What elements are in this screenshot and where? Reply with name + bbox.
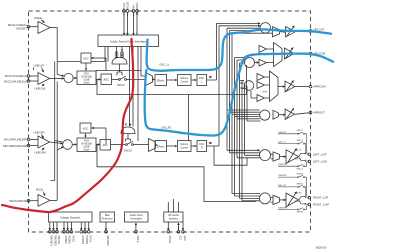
mixer C (right record mixer) bbox=[63, 140, 73, 150]
wire left bus verticals bbox=[51, 28, 58, 201]
svg-text:SW-L4: SW-L4 bbox=[295, 150, 302, 152]
amp D5 LEFT_LO driver bbox=[286, 149, 299, 164]
wire Volume R to DAC R bbox=[191, 145, 196, 147]
svg-text:Effects: Effects bbox=[157, 79, 165, 82]
svg-text:0.5dB: 0.5dB bbox=[83, 147, 89, 149]
svg-text:DVDD1: DVDD1 bbox=[81, 236, 84, 245]
wire DAC R to lineout bus bbox=[214, 146, 247, 165]
Voltage Supplies box bbox=[49, 212, 93, 222]
PGA C box bbox=[77, 138, 96, 152]
svg-text:AGC: AGC bbox=[83, 127, 89, 131]
Volume Control R box bbox=[178, 141, 192, 152]
level cells on serial lines bbox=[115, 52, 118, 57]
Volume Control L box bbox=[178, 75, 192, 86]
wire mux C down bbox=[126, 134, 131, 142]
pin LEFT_LOM bbox=[308, 160, 328, 164]
mux X4 bbox=[273, 110, 279, 119]
input pin MIC2L/LINE2L bbox=[27, 25, 38, 28]
wire A2 to mixer B bbox=[50, 78, 64, 80]
svg-text:SW-L2: SW-L2 bbox=[297, 130, 304, 132]
svg-text:LINE2LP: LINE2LP bbox=[278, 132, 287, 134]
wire AGC B down bbox=[85, 63, 87, 70]
svg-text:0/+59.5dB: 0/+59.5dB bbox=[81, 144, 92, 146]
wire HPRCOM mixer stub bbox=[242, 88, 244, 90]
svg-text:DRVDD2: DRVDD2 bbox=[53, 236, 56, 247]
svg-text:Generation: Generation bbox=[130, 217, 142, 220]
DAC L box bbox=[197, 75, 207, 86]
wire mux X2 to amp D2 bbox=[282, 53, 284, 55]
wire bypass C bbox=[97, 145, 256, 202]
svg-text:MICDET: MICDET bbox=[16, 27, 27, 31]
svg-text:Voltage Supplies: Voltage Supplies bbox=[60, 215, 81, 219]
wire bus v229 bbox=[230, 31, 261, 153]
label MICB bbox=[36, 188, 45, 196]
svg-text:MIC1LP/LINE1LP: MIC1LP/LINE1LP bbox=[5, 74, 27, 78]
svg-text:LEFT_LOP: LEFT_LOP bbox=[313, 152, 327, 156]
wire PGA B to ADC B bbox=[96, 78, 101, 80]
svg-text:AGC: AGC bbox=[83, 57, 89, 61]
svg-text:Interface: Interface bbox=[169, 217, 179, 220]
svg-text:SW-R4: SW-R4 bbox=[295, 193, 303, 195]
clock pin bbox=[135, 223, 139, 243]
svg-text:MIC1LM/LINE1LM: MIC1LM/LINE1LM bbox=[4, 79, 28, 83]
wire bus v216 bbox=[217, 23, 261, 80]
svg-text:SW-R2: SW-R2 bbox=[297, 174, 305, 176]
annotation blue path DAC-R to HPLCOM bbox=[145, 54, 333, 136]
svg-text:HPRCOM: HPRCOM bbox=[314, 85, 327, 89]
svg-text:DVSS: DVSS bbox=[89, 236, 92, 243]
wire A3 to mixer C bbox=[50, 142, 63, 144]
PGA B box bbox=[77, 71, 96, 85]
wire A4 out up bbox=[50, 199, 57, 201]
wire bypass B bbox=[97, 66, 247, 95]
label LINE1RP bbox=[34, 131, 45, 139]
wire mux X1 to amp D1 bbox=[280, 31, 286, 33]
buffer T2 bbox=[257, 74, 269, 81]
svg-text:LINE1RP: LINE1RP bbox=[34, 131, 45, 135]
Bias Reference box bbox=[100, 212, 115, 222]
label LINE1RM bbox=[35, 148, 46, 154]
svg-text:Control: Control bbox=[180, 146, 188, 149]
svg-text:B0265-05: B0265-05 bbox=[316, 247, 327, 250]
chip dashed border bbox=[29, 11, 311, 232]
svg-text:PGA: PGA bbox=[84, 73, 89, 76]
svg-text:DRVDD1: DRVDD1 bbox=[50, 236, 53, 247]
svg-text:DOUT: DOUT bbox=[135, 2, 139, 10]
amp A3 right input buffer bbox=[38, 136, 50, 148]
svg-text:SW-L5: SW-L5 bbox=[295, 158, 302, 160]
wire bus v219 bbox=[219, 26, 260, 146]
svg-text:AVDD1: AVDD1 bbox=[64, 236, 67, 245]
svg-text:R: R bbox=[201, 146, 203, 149]
svg-text:BCLK: BCLK bbox=[122, 2, 126, 9]
mux X3 tall bbox=[270, 71, 279, 102]
wire bus v244 bbox=[244, 84, 260, 156]
label LINE1LM bbox=[35, 84, 46, 90]
switch SW-D1 bbox=[117, 76, 126, 87]
amp D3 HPRCOM driver bbox=[285, 81, 295, 93]
mux X1 bbox=[270, 27, 279, 37]
svg-text:LINE1RM: LINE1RM bbox=[35, 150, 46, 154]
svg-text:Control: Control bbox=[180, 80, 188, 83]
svg-text:SW-R1: SW-R1 bbox=[297, 183, 305, 185]
wire mux E1 to Effects L bbox=[153, 78, 155, 80]
svg-text:LINE1LP: LINE1LP bbox=[34, 64, 45, 68]
svg-text:LINE2L: LINE2L bbox=[34, 16, 43, 20]
wire ASI to mux B bbox=[117, 47, 123, 52]
svg-text:0/+59.5dB: 0/+59.5dB bbox=[81, 77, 92, 79]
buffer T1b bbox=[259, 59, 273, 66]
mux X2 tall bbox=[274, 43, 282, 67]
input pins MIC1LP/LINE1LP bbox=[27, 75, 38, 78]
svg-text:Steps: Steps bbox=[84, 82, 91, 85]
mixer B (left record mixer) bbox=[64, 73, 73, 82]
wire amp D3 to pin HPRCOM bbox=[295, 86, 309, 88]
wire row B junction line bbox=[96, 70, 141, 79]
wire A1 out bbox=[50, 27, 57, 29]
wire amp D2 to pin HPLCOM bbox=[294, 53, 309, 55]
switch row LINE2RM SW-R3 bbox=[278, 205, 307, 210]
svg-text:MIC1RP/LINE1RP: MIC1RP/LINE1RP bbox=[4, 138, 27, 142]
svg-text:PGA: PGA bbox=[84, 140, 89, 143]
supply pins bbox=[48, 222, 90, 233]
switch row LINE2LM SW-L3 bbox=[278, 162, 307, 167]
svg-text:SW-L1: SW-L1 bbox=[297, 140, 304, 142]
wire bus v232 bbox=[232, 33, 272, 193]
svg-text:DVDD2: DVDD2 bbox=[85, 236, 88, 245]
svg-text:DIN: DIN bbox=[131, 5, 135, 10]
label LINE1LP bbox=[34, 64, 45, 73]
switch row DAC_L1 SW-L1 bbox=[278, 142, 306, 153]
svg-text:DAC_R1: DAC_R1 bbox=[278, 184, 287, 187]
wire mux X4 to amp D4 bbox=[279, 114, 285, 116]
Effects R box bbox=[155, 141, 167, 152]
wire switch B to mux bbox=[127, 78, 146, 80]
svg-text:SW-D2: SW-D2 bbox=[124, 150, 132, 153]
svg-text:SDA: SDA bbox=[183, 236, 186, 241]
pin WCLK bbox=[126, 10, 129, 35]
I2C Serial Interface box bbox=[164, 212, 183, 222]
AGC B box bbox=[81, 53, 91, 63]
wire mux X3 to amp D3 bbox=[278, 86, 285, 88]
wire D5 outputs bbox=[299, 153, 309, 162]
wire D6 outputs bbox=[299, 196, 309, 204]
wire bus v247 bbox=[228, 86, 261, 121]
pin RIGHT_LOP bbox=[308, 196, 328, 200]
mixer M4 HPROUT bbox=[260, 110, 270, 120]
svg-text:SW-R3: SW-R3 bbox=[297, 212, 305, 214]
wire bus v234 bbox=[235, 58, 260, 197]
svg-text:0.5dB: 0.5dB bbox=[83, 80, 89, 82]
pin HPRCOM bbox=[309, 85, 326, 89]
bias pin bbox=[105, 222, 109, 246]
mux E2 (DAC R input mux) bbox=[149, 139, 156, 152]
mux X6 bbox=[271, 195, 280, 204]
wire ADC C to switch C bbox=[111, 144, 126, 146]
svg-text:DAC_L1: DAC_L1 bbox=[160, 64, 170, 67]
svg-text:RIGHT_LOP: RIGHT_LOP bbox=[313, 196, 328, 200]
svg-text:ADC: ADC bbox=[102, 143, 108, 147]
pin HPLCOM bbox=[309, 52, 326, 56]
wire mixer B to PGA B bbox=[73, 77, 76, 79]
mixer M1 HPLOUT bbox=[260, 23, 270, 33]
pin HPROUT bbox=[309, 111, 325, 115]
amp A1 input buffer bbox=[38, 22, 50, 34]
wire M2 to mux X2 bbox=[255, 62, 259, 64]
DAC R box bbox=[197, 141, 207, 152]
wire Volume L to DAC L bbox=[191, 79, 196, 81]
wire amp D4 to pin HPROUT bbox=[295, 113, 309, 115]
annotation red path bbox=[2, 39, 133, 212]
svg-text:Audio Serial Data Interface: Audio Serial Data Interface bbox=[110, 40, 147, 44]
svg-text:DRVSS: DRVSS bbox=[57, 236, 60, 245]
wire mux E2 to Effects R bbox=[156, 144, 158, 146]
svg-text:LEFT_LOM: LEFT_LOM bbox=[313, 160, 328, 164]
switch SW-D2 bbox=[124, 141, 133, 152]
wire bus v227 bbox=[227, 28, 260, 150]
svg-text:MICB: MICB bbox=[36, 188, 43, 192]
wire bus v239 bbox=[240, 63, 260, 198]
pin RIGHT_LOM bbox=[308, 203, 329, 207]
amp A2 left input buffer bbox=[38, 73, 50, 85]
svg-text:SW-D1: SW-D1 bbox=[117, 84, 125, 87]
ADC C box bbox=[100, 140, 111, 151]
svg-text:RIGHT_LOM: RIGHT_LOM bbox=[313, 203, 329, 207]
svg-text:MIC1RM/LINE1RM: MIC1RM/LINE1RM bbox=[3, 144, 28, 148]
svg-text:GPIO1: GPIO1 bbox=[168, 236, 171, 244]
wire DAC L out to bus bbox=[207, 77, 217, 80]
Effects L box bbox=[155, 75, 167, 86]
I2C pins bbox=[167, 222, 184, 233]
svg-text:SW-L3: SW-L3 bbox=[297, 168, 304, 170]
switch row DAC_R1 SW-R1 bbox=[278, 185, 306, 196]
svg-text:LINE2RM: LINE2RM bbox=[278, 208, 287, 210]
svg-text:SW-R5: SW-R5 bbox=[295, 201, 303, 203]
wire switch C to mux E2 bbox=[134, 144, 149, 146]
I2C stubs up bbox=[168, 199, 178, 212]
svg-text:Steps: Steps bbox=[84, 149, 91, 152]
label LINE2L gain bbox=[34, 16, 45, 23]
amp D6 RIGHT_LO driver bbox=[286, 192, 299, 207]
svg-text:HPROUT: HPROUT bbox=[314, 111, 326, 115]
wire DAC R out to bus bbox=[207, 143, 220, 146]
buffer T1 bbox=[259, 46, 273, 53]
wire bus v242 bbox=[242, 81, 260, 201]
svg-text:ADC: ADC bbox=[103, 78, 109, 82]
input pins MIC1RP/LINE1RP bbox=[27, 138, 38, 141]
pin BCLK bbox=[123, 10, 126, 35]
wire stubs into mixer B bbox=[57, 75, 64, 77]
mixer M3 HPRCOM bbox=[244, 81, 254, 91]
mux X5 bbox=[271, 152, 280, 161]
wire ASI to left bus bbox=[57, 47, 108, 62]
svg-text:MCLK: MCLK bbox=[136, 236, 139, 243]
wire AGC B feedback bbox=[91, 57, 106, 59]
switch row LINE2RP SW-R2 bbox=[278, 175, 307, 196]
mux B trapezoid under ASI bbox=[112, 58, 127, 65]
wire bus stubs M3 bbox=[240, 81, 245, 89]
Audio Clock Generation box bbox=[125, 212, 149, 222]
switch row LINE2LP SW-L2 bbox=[278, 132, 307, 153]
wire Effects L to Volume L bbox=[167, 79, 177, 81]
svg-text:Effects: Effects bbox=[157, 145, 165, 148]
wire ADC B to switch bbox=[112, 78, 119, 80]
mixer M5 LEFT_LO bbox=[260, 150, 271, 161]
buffer T4 bbox=[251, 91, 269, 102]
amp D2 HPLCOM driver bbox=[285, 48, 295, 60]
svg-text:LINE1LM: LINE1LM bbox=[35, 86, 46, 90]
top pin labels bbox=[122, 2, 139, 10]
wire X5 to D5 bbox=[279, 156, 285, 158]
supply pin labels bbox=[50, 236, 92, 247]
wire X6 to D6 bbox=[279, 199, 285, 201]
pin DOUT bbox=[136, 10, 139, 35]
input pin MIC3 bbox=[27, 199, 38, 202]
wire interconnect DAC bus bbox=[188, 95, 190, 141]
mux C trapezoid bbox=[121, 127, 135, 134]
wire Effects R to Volume R bbox=[167, 145, 177, 147]
svg-text:Reference: Reference bbox=[102, 217, 114, 220]
svg-text:DAC_L1: DAC_L1 bbox=[278, 141, 287, 144]
amp D1 HPLOUT driver bbox=[286, 26, 296, 37]
mixer M6 RIGHT_LO bbox=[260, 193, 271, 204]
svg-text:WCLK: WCLK bbox=[125, 2, 129, 10]
Audio Serial Data Interface box U-ASI bbox=[98, 35, 159, 47]
svg-text:MIC3L/MIC3R: MIC3L/MIC3R bbox=[9, 199, 27, 203]
wire AGC C feedback bbox=[92, 127, 106, 129]
pin DIN bbox=[132, 10, 135, 35]
pin HPLOUT bbox=[309, 28, 325, 33]
amp D4 HPROUT driver bbox=[285, 108, 294, 119]
svg-text:HPR: HPR bbox=[263, 92, 268, 94]
annotation blue path DAC-L to HPLOUT bbox=[147, 29, 331, 70]
wire bus v237 bbox=[237, 60, 260, 158]
mux E1 (DAC L input mux) bbox=[141, 70, 153, 85]
wire ASI long verticals bbox=[130, 47, 142, 142]
svg-text:AVDD2: AVDD2 bbox=[68, 236, 71, 245]
ADC B box bbox=[101, 74, 112, 85]
amp A4 mic3 buffer bbox=[38, 195, 50, 207]
wire stubs into mixer C bbox=[55, 141, 64, 151]
wire PGA C to ADC C bbox=[96, 144, 100, 146]
wire amp D1 to pin HPLOUT bbox=[295, 30, 309, 33]
wire mux B down to switch node bbox=[117, 64, 122, 76]
AGC C box bbox=[80, 123, 91, 133]
svg-text:LINE2LM: LINE2LM bbox=[278, 164, 287, 166]
buffer T3 bbox=[257, 82, 269, 89]
pin LEFT_LOP bbox=[308, 152, 327, 156]
wire AGC C down bbox=[85, 133, 87, 137]
svg-text:MICBIAS: MICBIAS bbox=[106, 236, 109, 247]
svg-text:DAC_R1: DAC_R1 bbox=[162, 127, 172, 130]
wire mixer C to PGA C bbox=[72, 144, 76, 146]
svg-text:SCL: SCL bbox=[178, 236, 181, 241]
svg-text:LINE2RP: LINE2RP bbox=[278, 175, 287, 177]
wire stub into mixer C bottom bbox=[56, 147, 63, 150]
svg-text:AVSS: AVSS bbox=[71, 236, 74, 243]
mixer M2 HPLCOM bbox=[245, 58, 255, 68]
